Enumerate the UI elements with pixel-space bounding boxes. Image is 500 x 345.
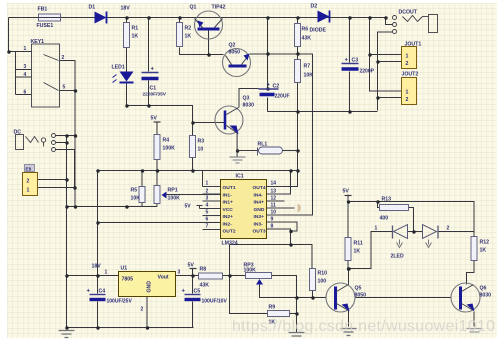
power 5V above C5 (188, 263, 197, 269)
wire R10 bottom to Q5 base (313, 291, 327, 298)
svg-text:2: 2 (447, 226, 450, 232)
svg-text:IN1-: IN1- (223, 193, 233, 199)
wire Q3 base from R3 column (193, 122, 225, 124)
svg-text:GND: GND (147, 281, 153, 293)
wire 18V feed to regulator (67, 275, 119, 277)
resistor R2 (177, 23, 192, 47)
svg-text:TIP42: TIP42 (212, 5, 226, 11)
svg-text:6: 6 (24, 90, 27, 96)
resistor R6 (295, 24, 312, 47)
wire pin10 stub to x312 (285, 214, 313, 216)
svg-text:5: 5 (206, 210, 209, 216)
buzzer mark near pin11 (298, 204, 301, 213)
svg-text:100: 100 (318, 279, 327, 285)
ground at bottom rail left (59, 331, 75, 338)
svg-text:2: 2 (206, 189, 209, 195)
wire top 18V rail (9, 17, 386, 19)
wire y244 to R10 top (291, 245, 313, 269)
wire C2 bottom to y112 bus (267, 98, 269, 112)
svg-text:8: 8 (271, 224, 274, 230)
ground below Q5 (341, 329, 357, 336)
svg-text:18V: 18V (121, 6, 131, 12)
svg-text:43K: 43K (302, 36, 312, 42)
svg-text:R7: R7 (304, 64, 311, 70)
wire RP3 right to ground column (272, 276, 297, 333)
svg-text:R6: R6 (302, 27, 309, 33)
wire R5 top (141, 171, 143, 187)
svg-text:8050: 8050 (229, 50, 241, 56)
svg-text:100K: 100K (168, 196, 181, 202)
svg-text:IN2-: IN2- (223, 222, 233, 228)
svg-text:Q5: Q5 (355, 286, 362, 292)
svg-text:9: 9 (271, 217, 274, 223)
wire 5V node to R11 (347, 195, 349, 238)
svg-text:IN3-: IN3- (254, 222, 264, 228)
wire regulator GND pin (146, 297, 148, 328)
svg-text:5V: 5V (151, 116, 158, 122)
LED LED1 (112, 65, 134, 83)
svg-text:IN3+: IN3+ (254, 214, 265, 220)
svg-text:GND: GND (254, 207, 265, 213)
svg-text:Q3: Q3 (243, 96, 250, 102)
wire R6 bottom to R7 top (297, 47, 299, 60)
svg-text:C2: C2 (273, 84, 280, 90)
capacitor C3 (342, 58, 375, 75)
wire KEY1 pin2 to pin5 column x75 (60, 61, 76, 207)
resistor R11 (345, 238, 363, 261)
svg-text:2LED: 2LED (391, 254, 405, 260)
svg-text:2: 2 (406, 97, 409, 103)
svg-text:1: 1 (406, 54, 409, 60)
diode D2 (310, 4, 330, 34)
svg-text:13: 13 (271, 189, 277, 195)
capacitor C2 (259, 83, 290, 100)
svg-text:100K: 100K (163, 146, 176, 152)
wire R13 left (378, 202, 380, 208)
wire R7 bottom (297, 83, 299, 112)
wire 5V stub at C5 (192, 269, 194, 276)
svg-text:Q6: Q6 (480, 286, 487, 292)
svg-text:400: 400 (380, 216, 389, 222)
wire between LEDs (408, 231, 423, 233)
wire JOUT2 pin2 stub (378, 97, 402, 99)
wire left drop from rail to KEY1 (9, 18, 32, 52)
svg-text:+: + (345, 58, 349, 64)
wire C5 top (192, 276, 194, 294)
svg-text:C4: C4 (99, 289, 106, 295)
resistor R1 (124, 23, 139, 48)
wire RP1 wiper to IC pin2 (167, 194, 221, 196)
potentiometer RP3 (244, 263, 272, 285)
wire C1 top from rail (148, 18, 150, 72)
wire R4 bottom to RP1 top (156, 160, 158, 186)
svg-text:100K: 100K (244, 268, 257, 274)
svg-text:DIODE: DIODE (310, 28, 327, 34)
wire y170 long horizontal (98, 170, 298, 172)
wire R6 top (297, 18, 299, 24)
resistor R5 (131, 187, 146, 203)
wire R9 right (290, 313, 297, 315)
ground below RP3/R9 column (289, 333, 305, 337)
svg-text:1: 1 (206, 181, 209, 187)
svg-text:1: 1 (375, 226, 378, 232)
wire x97 column 18V/C4 (97, 171, 99, 294)
svg-text:5V: 5V (343, 189, 350, 195)
wire JOUT1 pin2 stub (378, 61, 402, 63)
svg-text:43K: 43K (200, 283, 210, 289)
svg-text:2: 2 (62, 55, 65, 61)
svg-text:1K: 1K (354, 249, 361, 255)
capacitor C5 (182, 289, 228, 305)
wire node LED1/C1 to R3 column (127, 106, 193, 136)
diode D1 (89, 5, 107, 24)
relay RL1 (237, 142, 297, 156)
connector E8 (23, 165, 38, 196)
wire y112.5 bus (268, 111, 378, 113)
wire Q6 base long wire (356, 297, 452, 299)
svg-text:R9: R9 (269, 305, 276, 311)
svg-text:8030: 8030 (480, 293, 492, 299)
svg-text:+: + (151, 67, 155, 73)
svg-text:R10: R10 (318, 271, 328, 277)
svg-text:E8: E8 (26, 167, 32, 172)
svg-text:C3: C3 (352, 58, 359, 64)
svg-text:1: 1 (105, 270, 108, 276)
wire R13 right into LED middle (409, 208, 414, 232)
wire R4 top power stub (156, 123, 158, 135)
capacitor C4 (87, 289, 133, 305)
wire Q3 emitter to ground (236, 133, 238, 157)
svg-text:1K: 1K (480, 248, 487, 254)
svg-text:R4: R4 (163, 138, 170, 144)
svg-text:1: 1 (27, 188, 30, 194)
svg-text:2: 2 (27, 179, 30, 185)
wire Q1 base drop (208, 31, 210, 55)
svg-text:100UF/25V: 100UF/25V (107, 299, 133, 305)
svg-text:C1: C1 (150, 86, 157, 92)
transistor Q3 8030 (215, 96, 254, 135)
svg-text:2: 2 (406, 61, 409, 67)
svg-text:5V: 5V (185, 204, 192, 210)
wire Q2 right to C2 column (250, 53, 313, 55)
svg-text:R1: R1 (132, 26, 139, 32)
svg-text:OUT4: OUT4 (253, 185, 266, 191)
resistor R13 (380, 197, 409, 222)
regulator U1 7805 (105, 266, 181, 313)
svg-text:R8: R8 (200, 267, 207, 273)
svg-text:R3: R3 (198, 139, 205, 145)
wire pin1 up (202, 171, 204, 187)
wire R11 bottom to LED row (348, 232, 393, 269)
switch KEY1 (24, 39, 66, 107)
wire x66 long ground column (66, 136, 68, 328)
transistor Q6 8030 (451, 283, 491, 312)
svg-text:RP1: RP1 (168, 188, 178, 194)
svg-text:10K: 10K (304, 73, 314, 79)
wire Q5 collector up (348, 269, 350, 285)
LED pair 2LED (375, 225, 450, 260)
transistor Q2 8050 (223, 43, 251, 77)
svg-text:FUSE1: FUSE1 (37, 23, 54, 29)
svg-text:IN2+: IN2+ (223, 214, 234, 220)
svg-text:1K: 1K (132, 34, 139, 40)
svg-text:2200P: 2200P (360, 69, 375, 75)
wire pin8 to y244 (230, 229, 291, 245)
svg-text:Vout: Vout (158, 275, 169, 281)
connector DCOUT jack (393, 10, 438, 34)
wire KEY1 left pin bus (16, 52, 32, 95)
svg-text:DCOUT: DCOUT (399, 10, 418, 16)
wire pin9 jog (267, 222, 298, 231)
svg-text:IC1: IC1 (236, 174, 244, 180)
potentiometer RP1 (154, 186, 180, 204)
svg-text:5V: 5V (188, 263, 195, 269)
ground below Q3 (230, 157, 246, 163)
wire R9 left to x229 column (230, 245, 268, 314)
wire x297 column to RL1 and pin14 (285, 112, 298, 187)
resistor R4 (154, 135, 175, 160)
svg-text:JOUT2: JOUT2 (402, 72, 419, 78)
connector JOUT1 (402, 42, 422, 69)
connector DC jack (14, 130, 56, 152)
wire JOUT1 pin1 stub (370, 54, 402, 56)
capacitor C1 (142, 67, 167, 98)
svg-text:5: 5 (63, 85, 66, 91)
connector JOUT2 (402, 72, 419, 105)
wire DC jack to columns (56, 136, 76, 188)
svg-text:4: 4 (24, 72, 27, 78)
svg-text:OUT1: OUT1 (223, 185, 236, 191)
svg-text:IN1+: IN1+ (223, 200, 234, 206)
wire Q3 collector to C2 top (239, 89, 259, 108)
resistor R12 (471, 237, 489, 261)
wire R12 bottom to Q6 collector (467, 261, 475, 285)
svg-text:Q2: Q2 (229, 43, 236, 49)
svg-text:C5: C5 (194, 289, 201, 295)
svg-text:IN4+: IN4+ (254, 200, 265, 206)
resistor R10 (310, 269, 328, 291)
svg-text:3: 3 (206, 196, 209, 202)
svg-text:OUT2: OUT2 (223, 229, 236, 235)
svg-text:R5: R5 (131, 188, 138, 194)
svg-text:3: 3 (178, 270, 181, 276)
svg-text:14: 14 (271, 181, 277, 187)
svg-text:6: 6 (206, 217, 209, 223)
resistor R7 (295, 60, 314, 83)
svg-text:7: 7 (206, 224, 209, 230)
IC U1 LM324 (185, 174, 295, 247)
svg-text:R2: R2 (185, 26, 192, 32)
power 5V right block (343, 189, 352, 202)
svg-text:D2: D2 (311, 4, 318, 10)
svg-text:2: 2 (141, 307, 144, 313)
svg-text:U1: U1 (121, 266, 128, 272)
resistor R9 (268, 305, 290, 326)
wire C3 from rail down to y112 bus (349, 18, 351, 112)
svg-text:8030: 8030 (243, 103, 255, 109)
svg-text:10K: 10K (131, 196, 141, 202)
svg-text:220UF: 220UF (275, 94, 290, 100)
svg-text:Q1: Q1 (190, 5, 197, 11)
wire pin6 long wire (98, 222, 221, 224)
wire R2 top (179, 18, 181, 23)
svg-text:R12: R12 (480, 240, 490, 246)
svg-text:1K: 1K (185, 34, 192, 40)
wire x312 column from y53 to pin10 (312, 54, 314, 216)
svg-text:18V: 18V (92, 264, 102, 270)
wire regulator Vout to R8 RP3 (176, 275, 246, 277)
svg-text:11: 11 (271, 203, 277, 209)
svg-text:RL1: RL1 (258, 142, 268, 148)
wire E8 pin2 stub (38, 179, 67, 181)
transistor Q5 8050 (326, 283, 366, 312)
svg-text:4: 4 (206, 203, 209, 209)
svg-text:1: 1 (24, 46, 27, 52)
svg-text:+: + (182, 289, 186, 295)
wire LED1 cathode down (126, 83, 128, 106)
resistor R3 (190, 136, 205, 158)
svg-text:12: 12 (271, 196, 277, 202)
svg-text:3: 3 (24, 64, 27, 70)
resistor R8 (199, 267, 223, 289)
wire R1 top (126, 18, 128, 23)
svg-text:100UF/10V: 100UF/10V (202, 299, 228, 305)
wire Q5 emitter to ground (348, 311, 350, 327)
svg-text:1: 1 (406, 90, 409, 96)
svg-text:+: + (87, 289, 91, 295)
wire Q5 base left segment from wiper node (297, 297, 327, 299)
wire 5V bus y201 to R12 (348, 202, 474, 237)
wire R3 bottom to long horizontal (192, 158, 194, 171)
svg-text:LM324: LM324 (222, 241, 238, 247)
wire bottom ground rail (67, 327, 194, 329)
svg-text:+: + (267, 83, 271, 89)
wire C2 column x267 from rail through y53 to C2 (267, 18, 269, 88)
svg-text:IN4-: IN4- (254, 193, 264, 199)
wire R2 bottom to Q1 base junction and Q2 base (180, 48, 224, 55)
wire E8 pin1 stub (38, 187, 75, 189)
power 5V above R4 (151, 116, 161, 123)
svg-text:10: 10 (271, 210, 277, 216)
svg-text:D1: D1 (89, 5, 96, 11)
svg-text:2200F/35V: 2200F/35V (143, 92, 167, 98)
wire R5 RP1 bottoms bus y206 (67, 203, 158, 207)
fuse FB1 (37, 7, 61, 30)
transistor Q1 TIP42 (190, 5, 226, 40)
wire right LED to R12 column (438, 231, 474, 233)
svg-text:https://blog.csdn.net/wusuowei: https://blog.csdn.net/wusuowei1010 (232, 318, 495, 335)
svg-text:10: 10 (198, 147, 204, 153)
svg-text:OUT3: OUT3 (253, 229, 266, 235)
svg-text:R11: R11 (354, 241, 363, 247)
svg-text:R13: R13 (382, 197, 392, 203)
wire R1 bottom to LED1 (126, 48, 128, 72)
wire C4 bottom (97, 302, 99, 328)
wire C5 bottom (192, 302, 194, 328)
wire RP3 wiper (260, 285, 297, 298)
wire C1 bottom (148, 81, 150, 106)
svg-text:LED1: LED1 (112, 65, 125, 71)
wire DCOUT connections (370, 18, 402, 111)
svg-text:8050: 8050 (355, 293, 367, 299)
ground below Q6 (467, 329, 483, 333)
svg-text:FB1: FB1 (38, 7, 48, 13)
svg-text:7805: 7805 (122, 277, 134, 283)
wire pin13 up to y170 (285, 171, 291, 195)
svg-text:VCC: VCC (223, 207, 234, 213)
wire Q6 emitter down (473, 312, 475, 327)
